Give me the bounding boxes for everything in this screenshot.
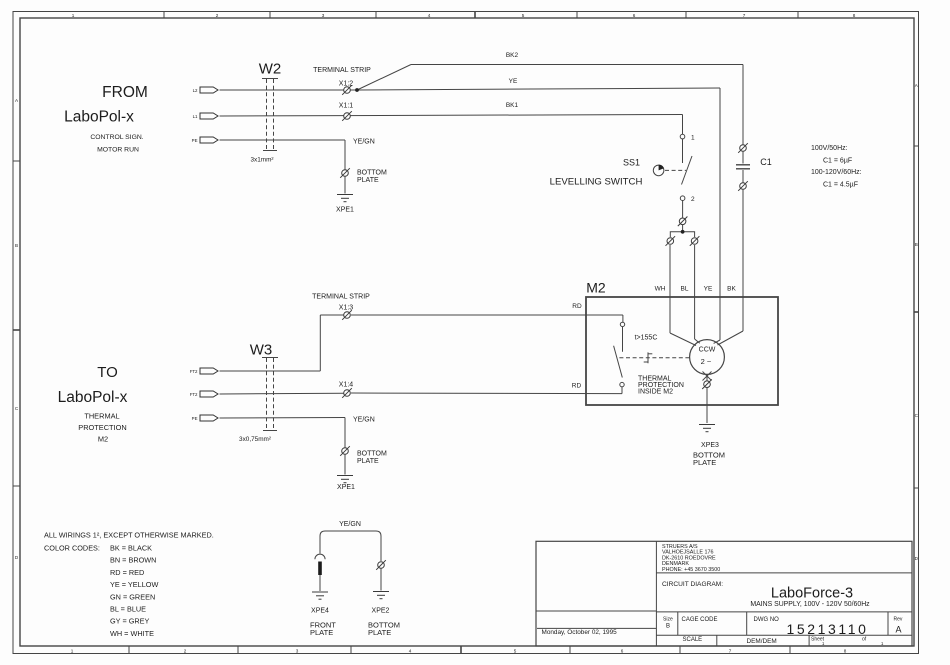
svg-text:4: 4 <box>409 648 412 653</box>
svg-text:XPE2: XPE2 <box>372 608 390 615</box>
svg-text:PLATE: PLATE <box>310 628 333 637</box>
svg-text:TERMINAL STRIP: TERMINAL STRIP <box>312 294 370 301</box>
svg-text:YE/GN: YE/GN <box>339 521 361 528</box>
svg-text:4: 4 <box>428 13 431 18</box>
svg-text:PLATE: PLATE <box>357 177 379 184</box>
svg-text:BK: BK <box>727 286 736 293</box>
svg-text:MAINS SUPPLY, 100V - 120V 50/6: MAINS SUPPLY, 100V - 120V 50/60Hz <box>750 601 870 608</box>
svg-text:INSIDE M2: INSIDE M2 <box>638 389 673 396</box>
svg-text:RD = RED: RD = RED <box>110 568 144 577</box>
svg-text:of: of <box>862 637 867 643</box>
svg-text:X1:4: X1:4 <box>339 382 354 389</box>
svg-text:LEVELLING SWITCH: LEVELLING SWITCH <box>550 177 643 188</box>
svg-text:M2: M2 <box>586 280 606 296</box>
svg-text:RD: RD <box>572 383 582 390</box>
svg-text:GN = GREEN: GN = GREEN <box>110 592 155 601</box>
svg-text:B: B <box>915 242 918 247</box>
svg-text:WH = WHITE: WH = WHITE <box>110 629 154 638</box>
svg-text:5: 5 <box>514 648 517 653</box>
svg-text:Rev: Rev <box>894 617 903 623</box>
svg-text:7: 7 <box>743 13 746 18</box>
svg-text:YE = YELLOW: YE = YELLOW <box>110 580 158 589</box>
svg-text:TERMINAL STRIP: TERMINAL STRIP <box>313 67 371 74</box>
svg-text:1: 1 <box>72 13 75 18</box>
svg-text:SCALE: SCALE <box>683 637 703 643</box>
svg-text:t>155C: t>155C <box>635 335 658 342</box>
svg-text:BK1: BK1 <box>506 102 519 109</box>
svg-text:RD: RD <box>572 303 582 310</box>
svg-text:PLATE: PLATE <box>368 628 391 637</box>
svg-text:2: 2 <box>184 648 187 653</box>
svg-text:YE: YE <box>509 78 518 85</box>
svg-text:X1:2: X1:2 <box>339 81 354 88</box>
svg-text:XPE1: XPE1 <box>337 484 355 491</box>
svg-text:YE/GN: YE/GN <box>353 139 375 146</box>
svg-text:5: 5 <box>522 13 525 18</box>
svg-text:3x1mm²: 3x1mm² <box>250 157 273 164</box>
svg-text:ALL WIRINGS 1², EXCEPT OTHERWI: ALL WIRINGS 1², EXCEPT OTHERWISE MARKED. <box>44 531 214 540</box>
svg-text:DEM/DEM: DEM/DEM <box>747 638 777 645</box>
svg-text:7: 7 <box>729 648 732 653</box>
svg-text:BOTTOM: BOTTOM <box>357 451 387 458</box>
svg-text:100V/50Hz:: 100V/50Hz: <box>811 145 848 152</box>
svg-text:M2: M2 <box>98 435 108 444</box>
svg-text:100-120V/60Hz:: 100-120V/60Hz: <box>811 169 862 176</box>
svg-text:MOTOR RUN: MOTOR RUN <box>97 147 139 154</box>
svg-text:3: 3 <box>322 13 325 18</box>
svg-text:FT2: FT2 <box>190 392 198 397</box>
svg-text:BN = BROWN: BN = BROWN <box>110 556 156 565</box>
svg-text:BK2: BK2 <box>506 52 519 59</box>
svg-text:PHONE: +45 3670 3500: PHONE: +45 3670 3500 <box>662 567 720 573</box>
svg-text:YE/GN: YE/GN <box>353 417 375 424</box>
svg-text:PROTECTION: PROTECTION <box>78 423 126 432</box>
svg-text:XPE1: XPE1 <box>336 207 354 214</box>
svg-text:L2: L2 <box>193 88 198 93</box>
svg-text:2: 2 <box>691 196 695 203</box>
svg-text:3: 3 <box>296 648 299 653</box>
svg-text:PE: PE <box>192 416 198 421</box>
svg-text:XPE3: XPE3 <box>701 442 719 449</box>
svg-text:3x0,75mm²: 3x0,75mm² <box>239 436 271 443</box>
svg-text:W2: W2 <box>259 61 282 78</box>
svg-text:Monday, October 02, 1995: Monday, October 02, 1995 <box>542 629 618 636</box>
svg-text:8: 8 <box>844 648 847 653</box>
svg-text:PLATE: PLATE <box>693 458 716 467</box>
svg-text:Size: Size <box>663 617 673 623</box>
svg-text:THERMAL: THERMAL <box>84 412 119 421</box>
svg-text:CCW: CCW <box>699 347 716 354</box>
svg-text:COLOR CODES:: COLOR CODES: <box>44 544 100 553</box>
svg-text:PLATE: PLATE <box>357 458 379 465</box>
svg-text:LaboForce-3: LaboForce-3 <box>771 586 853 602</box>
svg-text:W3: W3 <box>250 342 273 359</box>
svg-text:BL: BL <box>681 286 689 293</box>
svg-text:B: B <box>666 624 670 630</box>
svg-text:CONTROL SIGN.: CONTROL SIGN. <box>90 134 143 141</box>
svg-text:FT2: FT2 <box>190 369 198 374</box>
svg-text:6: 6 <box>621 648 624 653</box>
svg-text:X1:3: X1:3 <box>339 305 354 312</box>
svg-text:X1:1: X1:1 <box>339 103 354 110</box>
svg-text:TO: TO <box>97 364 118 381</box>
svg-text:BOTTOM: BOTTOM <box>357 170 387 177</box>
svg-text:15213110: 15213110 <box>787 621 869 637</box>
svg-text:PE: PE <box>192 138 198 143</box>
svg-text:WH: WH <box>655 286 666 293</box>
svg-text:8: 8 <box>853 13 856 18</box>
svg-text:CIRCUIT DIAGRAM:: CIRCUIT DIAGRAM: <box>662 581 723 588</box>
svg-text:C1 = 6µF: C1 = 6µF <box>823 158 852 165</box>
svg-text:2: 2 <box>216 13 219 18</box>
svg-text:BK = BLACK: BK = BLACK <box>110 544 152 553</box>
svg-text:1: 1 <box>691 134 695 141</box>
svg-text:B: B <box>15 243 18 248</box>
svg-text:L1: L1 <box>193 114 198 119</box>
svg-text:CAGE CODE: CAGE CODE <box>682 617 718 623</box>
svg-text:C1 = 4.5µF: C1 = 4.5µF <box>823 182 858 189</box>
svg-text:6: 6 <box>633 13 636 18</box>
svg-text:GY = GREY: GY = GREY <box>110 617 150 626</box>
svg-text:DWG NO: DWG NO <box>754 617 780 623</box>
svg-text:XPE4: XPE4 <box>311 608 329 615</box>
svg-text:SS1: SS1 <box>623 158 640 168</box>
svg-text:LaboPol-x: LaboPol-x <box>64 109 134 126</box>
svg-text:1: 1 <box>71 648 74 653</box>
svg-text:FROM: FROM <box>102 84 148 101</box>
svg-text:C1: C1 <box>760 157 772 167</box>
svg-text:LaboPol-x: LaboPol-x <box>58 389 128 406</box>
svg-text:2 ~: 2 ~ <box>701 357 712 366</box>
svg-text:BL = BLUE: BL = BLUE <box>110 605 146 614</box>
svg-text:A: A <box>895 625 901 635</box>
svg-text:YE: YE <box>704 286 713 293</box>
